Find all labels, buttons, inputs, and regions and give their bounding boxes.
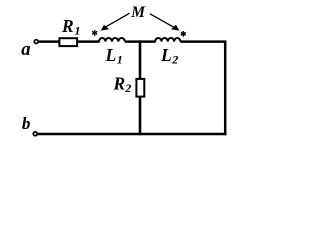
bottom wire <box>37 133 226 136</box>
wire R1 to L1 <box>78 40 100 43</box>
svg-text:2: 2 <box>171 53 178 67</box>
svg-text:M: M <box>130 4 146 21</box>
wire L2 to top-right corner and right side down <box>180 42 225 136</box>
resistor R2 <box>136 79 144 97</box>
svg-text:R: R <box>61 16 74 36</box>
svg-text:1: 1 <box>75 24 81 38</box>
terminal a <box>34 40 38 44</box>
dot star L1 <box>92 30 97 36</box>
resistor R1 <box>59 38 77 46</box>
svg-text:b: b <box>22 114 31 133</box>
inductor L1 <box>99 38 125 42</box>
dot star L2 <box>181 31 186 37</box>
middle wire upper segment <box>139 40 142 79</box>
svg-text:L: L <box>105 45 117 65</box>
inductor L2 <box>155 38 180 42</box>
svg-text:R: R <box>113 74 126 94</box>
svg-text:1: 1 <box>117 53 123 67</box>
arrow M to L1 <box>101 13 130 30</box>
svg-text:2: 2 <box>124 81 131 95</box>
svg-text:L: L <box>160 45 172 65</box>
terminal b <box>33 132 37 136</box>
arrow M to L2 <box>150 14 179 31</box>
wire a to R1 <box>39 40 59 43</box>
svg-text:a: a <box>21 40 30 60</box>
middle wire lower segment <box>139 97 142 136</box>
wire L1 to L2 <box>125 40 156 43</box>
